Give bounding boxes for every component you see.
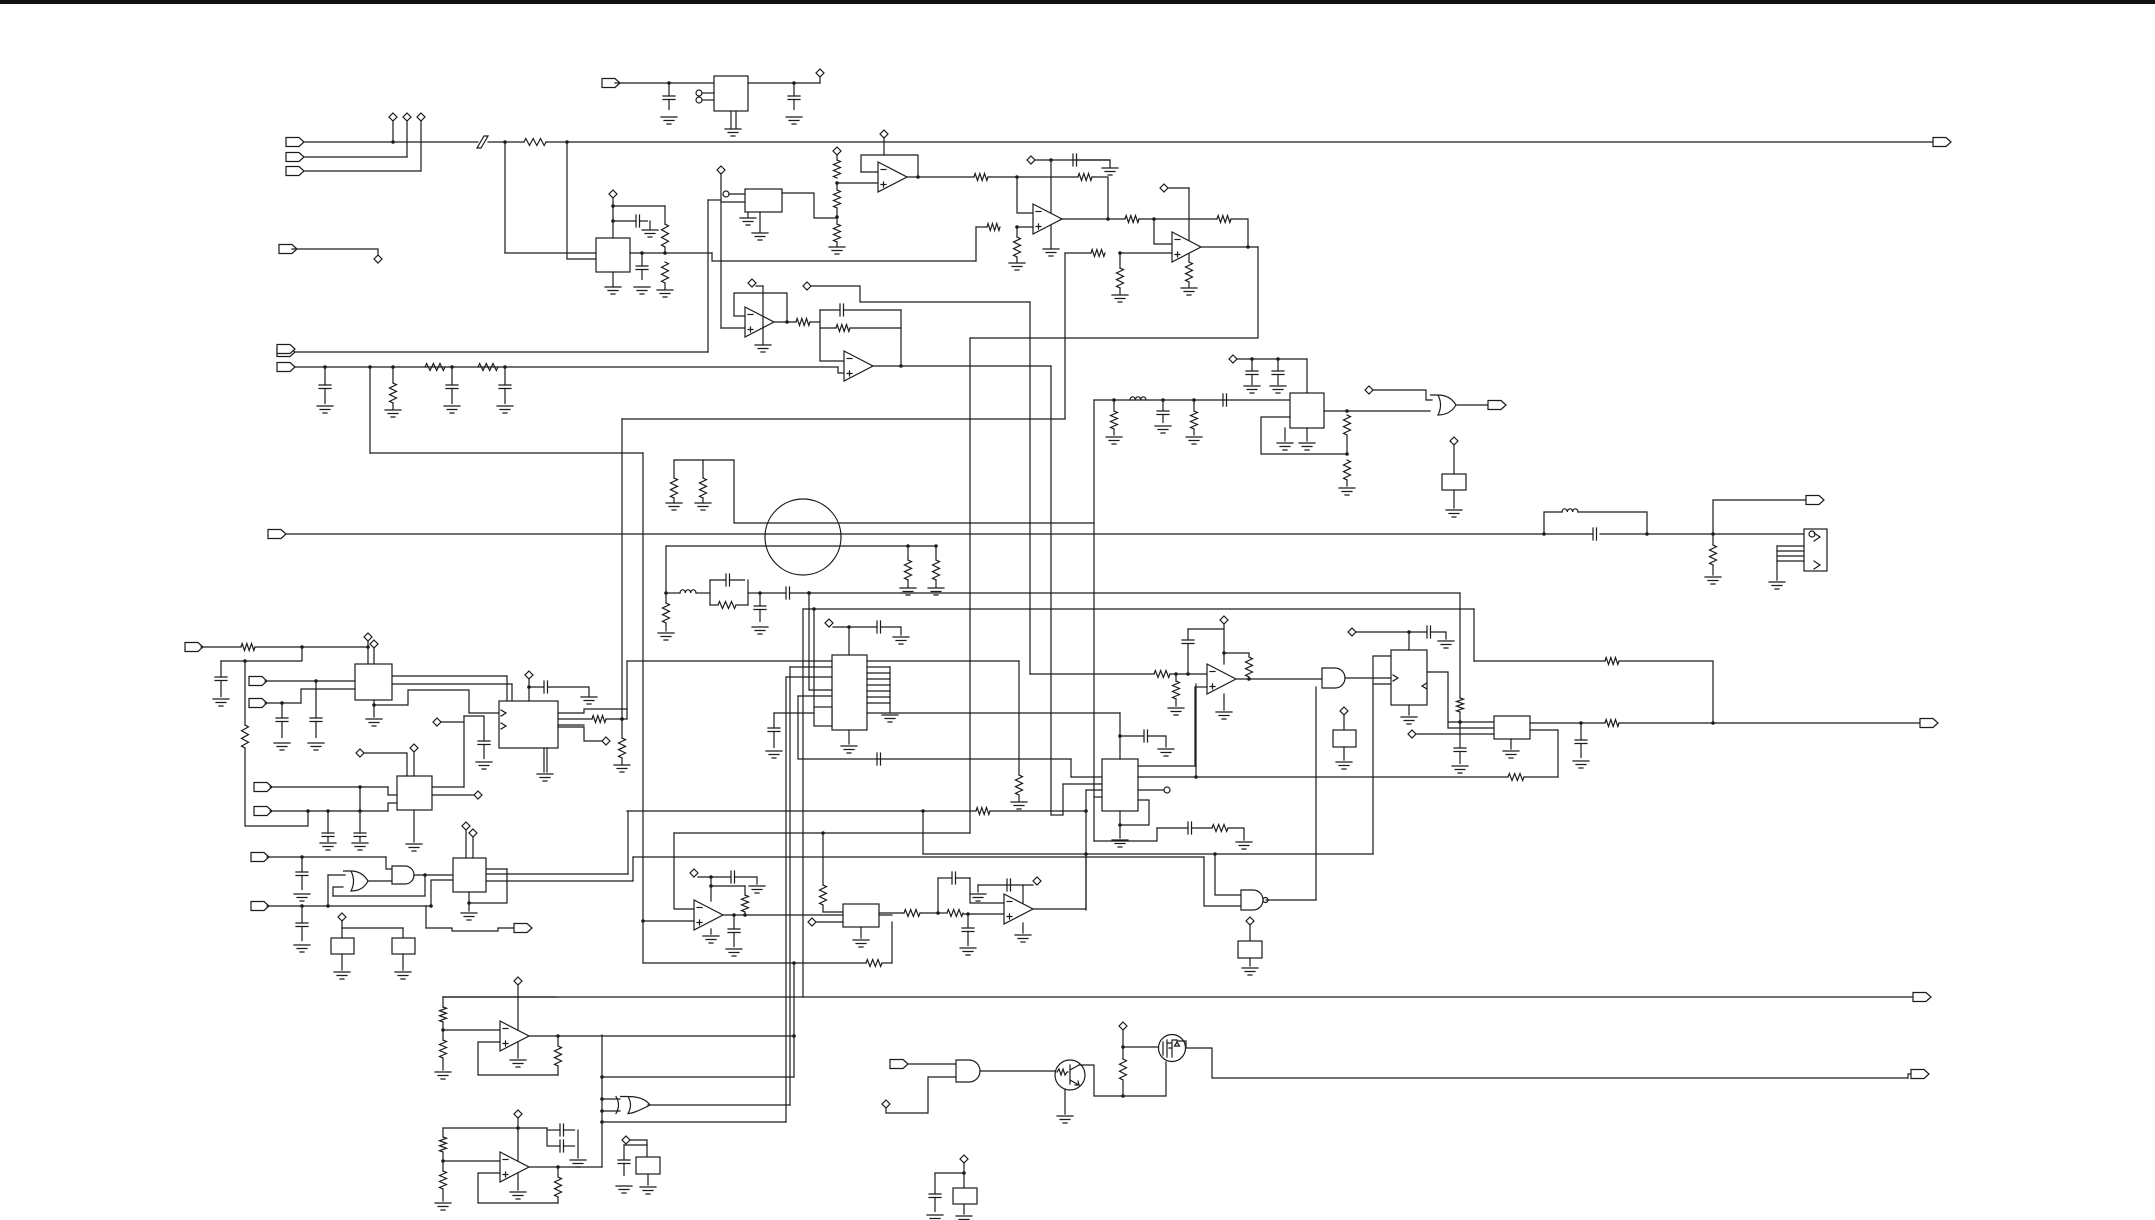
pin circle U1-b bbox=[696, 97, 702, 103]
wire R55 stub bbox=[442, 1161, 444, 1171]
op-amp U5 bbox=[1033, 204, 1062, 234]
ground below C32 bbox=[1573, 761, 1589, 768]
wire x464 cap spur bbox=[464, 716, 484, 741]
resistor R50 bbox=[1212, 825, 1228, 832]
wire NAND in1 feed bbox=[1215, 854, 1241, 895]
wire U16 left bracket bbox=[1373, 656, 1391, 854]
wire U19 out bbox=[879, 912, 904, 914]
wire U11 right pin 2 bbox=[432, 794, 474, 796]
junction U2top-y206 bbox=[611, 204, 615, 208]
wire U6 out down-left bbox=[970, 247, 1258, 338]
wire NAND in2 feed bbox=[1204, 857, 1241, 906]
junction y609-x814 bbox=[812, 607, 816, 611]
wire NAND to G2 riser bbox=[1315, 687, 1317, 900]
wire TP2 stub bbox=[406, 121, 408, 157]
wire y713 to side box bbox=[774, 712, 814, 714]
ground below R10 bbox=[1009, 263, 1025, 270]
wire TP14 supply bbox=[1237, 358, 1307, 360]
wire R16 stub bbox=[392, 367, 394, 383]
wire U15 + riser bbox=[1194, 687, 1196, 766]
wire y815 bbox=[1051, 814, 1063, 816]
ground below R26 bbox=[695, 503, 711, 510]
wire x1196 riser to U15+ bbox=[1195, 684, 1197, 777]
test point diamond TP32 bbox=[514, 977, 522, 985]
wire R55 gnd stub bbox=[442, 1189, 444, 1201]
ground below U2 bbox=[605, 287, 621, 294]
wire U3 gnd stub 1 bbox=[747, 212, 749, 217]
wire U8 input node bbox=[820, 310, 844, 361]
IC U13 side box bbox=[814, 707, 832, 726]
wire U17 right pin y730 bbox=[1530, 729, 1558, 731]
resistor R43 bbox=[1605, 658, 1619, 665]
resistor R37 bbox=[1508, 774, 1524, 781]
IC U12 (MCU) bbox=[499, 701, 558, 748]
and gate G5 bbox=[392, 866, 414, 884]
wire G6 output bbox=[368, 880, 392, 882]
resistor R32 bbox=[1344, 460, 1351, 480]
wire y206 to R2 bbox=[613, 205, 665, 207]
regulator U1 bbox=[714, 76, 748, 111]
wire U12 pin y713 route bbox=[558, 709, 627, 713]
wire U21 + input bbox=[478, 1042, 558, 1075]
wire U16 bottom pin bbox=[1408, 705, 1410, 715]
connector tag J1 (input 1) bbox=[286, 138, 304, 147]
wire R50 to gnd bbox=[1228, 828, 1244, 840]
test point diamond TP41 bbox=[1246, 917, 1254, 925]
capacitor C17 bbox=[1277, 359, 1279, 371]
wire R37 to x1558 bbox=[1524, 776, 1558, 778]
wire y629 link bbox=[1188, 628, 1224, 630]
ground below C19 bbox=[308, 743, 324, 750]
connector tag J17 (bus out) bbox=[1913, 993, 1931, 1002]
wire G4 output bbox=[648, 1104, 790, 1106]
junction y546-R23 bbox=[906, 544, 910, 548]
wire y1036 run bbox=[558, 1035, 794, 1037]
junction y723-C32 bbox=[1579, 721, 1583, 725]
capacitor C8 bbox=[504, 367, 506, 385]
test point diamond TP29 bbox=[690, 869, 698, 877]
and gate G7 bbox=[956, 1060, 980, 1082]
resistor R28 (parallel) bbox=[718, 602, 736, 609]
wire J16 to U11 bbox=[270, 810, 388, 812]
ferrite bead FB3 bbox=[1333, 730, 1356, 747]
ground below C31 bbox=[1452, 766, 1468, 773]
wire R26 stub bbox=[702, 460, 704, 478]
wire U13 left pin y677 bbox=[786, 676, 832, 678]
test point diamond TP19 bbox=[356, 749, 364, 757]
wire C3 to gnd bbox=[649, 221, 651, 229]
wire U13 top pin bbox=[848, 627, 850, 655]
wire CON1 pin w4 bbox=[1777, 560, 1804, 562]
resistor R13 bbox=[1186, 262, 1193, 282]
wire TP7 vertical x721 bbox=[720, 174, 722, 328]
junction bus-bead bbox=[1542, 532, 1546, 536]
wire R35 gnd stub bbox=[1018, 795, 1020, 801]
junction R4-R5 bbox=[835, 181, 839, 185]
ground below U19 bbox=[853, 940, 869, 947]
wire x302 jog bbox=[221, 647, 302, 661]
ground below R6 bbox=[829, 247, 845, 254]
ground below R15 bbox=[1112, 295, 1128, 302]
wire x711 supply bbox=[710, 877, 712, 901]
capacitor C13 (series) bbox=[760, 592, 786, 594]
wire y453 bbox=[370, 452, 643, 454]
wire U17 bottom pin bbox=[1510, 739, 1512, 749]
wire y928 run bbox=[342, 927, 403, 929]
wire y1128 run bbox=[443, 1127, 547, 1129]
capacitor C16 bbox=[1251, 359, 1253, 371]
resistor R45 bbox=[866, 960, 882, 967]
wire TP16 to FB2 bbox=[1453, 445, 1455, 474]
junction y703-C20 bbox=[280, 701, 284, 705]
ground below U13 right bar bbox=[882, 715, 898, 722]
wire U14 left pin y797 bbox=[1094, 796, 1102, 798]
wire x633 riser bbox=[632, 857, 634, 881]
wire U17 right pin y723 bbox=[1530, 722, 1581, 724]
pin circle CON1 bbox=[1809, 531, 1815, 537]
wire x803 long drop bbox=[802, 609, 804, 997]
ground below U10 bbox=[366, 719, 382, 726]
wire U14 gnd stub bbox=[1119, 825, 1121, 838]
connector tag J6 (mod out) bbox=[277, 348, 295, 357]
wire R56 stub b bbox=[557, 1197, 559, 1203]
capacitor C33 bbox=[731, 871, 735, 883]
ground below R23 bbox=[900, 588, 916, 595]
wire G5 feedback bbox=[333, 875, 425, 896]
junction y854-x1215 bbox=[1213, 852, 1217, 856]
wire U12 pin y725 bbox=[558, 724, 584, 726]
ground below R13 bbox=[1181, 288, 1197, 295]
wire R27 stub bbox=[665, 593, 667, 603]
capacitor C24 bbox=[529, 686, 544, 688]
wire x1030 down bbox=[1029, 302, 1031, 674]
junction U9out-R31 bbox=[1345, 409, 1349, 413]
wire U7 feedback bbox=[734, 293, 787, 322]
wire U5 + input bbox=[1017, 226, 1033, 228]
capacitor C9 (feedback) bbox=[820, 309, 840, 311]
wire y854 run bbox=[923, 853, 1373, 855]
test point diamond TP36 bbox=[462, 822, 470, 830]
ground below osc caps bbox=[570, 1160, 586, 1167]
wire TP30 to U19 bbox=[816, 921, 843, 923]
and gate G2 bbox=[1322, 668, 1345, 688]
junction TP39-gate bbox=[1121, 1045, 1125, 1049]
ground below C14 bbox=[1155, 426, 1171, 433]
wire R28 left stub bbox=[710, 604, 718, 606]
ground below U15 bbox=[1216, 712, 1232, 719]
connector tag J16 bbox=[254, 807, 272, 816]
wire U1 pin b bbox=[702, 99, 714, 101]
resistor R23 bbox=[905, 560, 912, 580]
capacitor C2 bbox=[793, 83, 795, 96]
test point diamond TP4 bbox=[374, 255, 382, 263]
connector tag J23 bbox=[1911, 1070, 1929, 1079]
resistor R39 bbox=[1173, 681, 1180, 699]
resistor R11 bbox=[1125, 216, 1139, 223]
transistor Q2 (MOSFET) bbox=[1159, 1035, 1186, 1062]
ground below Q1 bbox=[1057, 1116, 1073, 1123]
ground below FB2 bbox=[1446, 510, 1462, 517]
test point diamond TP1 bbox=[389, 113, 397, 121]
resistor R1 in top bus bbox=[524, 139, 546, 146]
test point diamond TP22 bbox=[433, 718, 441, 726]
wire Q1 collector bbox=[1079, 1062, 1166, 1096]
connector tag J4 (enable) bbox=[279, 245, 297, 254]
resistor R3 bbox=[662, 262, 669, 283]
wire R2 bottom stub bbox=[664, 247, 666, 253]
test point diamond TP27 bbox=[1408, 730, 1416, 738]
connector tag RF OUT (top right) bbox=[1933, 138, 1951, 147]
ground below U13 bbox=[841, 746, 857, 753]
connector tag J2 (input 2) bbox=[286, 153, 304, 162]
wire R28 right stub bbox=[736, 604, 748, 606]
wire G4 lower input bbox=[602, 1110, 620, 1112]
wire TP26 supply bbox=[1356, 631, 1427, 633]
arrow CON1 top bbox=[1814, 533, 1820, 541]
wire U16 right pin route bbox=[1427, 672, 1494, 728]
capacitor C38 bbox=[1188, 822, 1192, 834]
resistor R29 bbox=[1111, 411, 1118, 429]
resistor R46 bbox=[820, 885, 827, 905]
wire U13 right pin 1 bbox=[867, 666, 890, 668]
wire R27 gnd stub bbox=[665, 623, 667, 631]
wire net IN1 to slash bbox=[304, 141, 478, 143]
wire U1 output bbox=[748, 82, 820, 84]
capacitor C44 bbox=[929, 1194, 941, 1198]
wire U14 left pin y784 bbox=[1063, 783, 1102, 785]
wire R51 link bbox=[442, 1022, 444, 1030]
capacitor C14 bbox=[1162, 400, 1164, 411]
capacitor C30 bbox=[1427, 626, 1431, 638]
wire C33 to gnd bbox=[735, 877, 758, 884]
resistor R10 bbox=[1014, 237, 1021, 257]
wire TP31 run bbox=[978, 884, 1033, 886]
wire C36 to x970 bbox=[956, 877, 971, 879]
junction y719-x622 bbox=[620, 717, 624, 721]
wire U7 output bbox=[774, 321, 796, 323]
wire U13 right pin 7 bbox=[867, 702, 890, 704]
wire x809 down bbox=[808, 593, 810, 690]
wire U23 right pin 2 bbox=[487, 880, 633, 882]
junction x1196-y777 bbox=[1194, 775, 1198, 779]
test point diamond TP16 bbox=[1450, 437, 1458, 445]
test point diamond TP17 bbox=[364, 633, 372, 641]
junction y914-C35 bbox=[966, 912, 970, 916]
junction x794-y963 bbox=[792, 961, 796, 965]
wire U1 gnd pin 1 bbox=[730, 111, 732, 128]
wire R34 to y826 bbox=[245, 748, 308, 826]
wire x627 riser ext bbox=[626, 709, 628, 719]
junction y546-R24 bbox=[934, 544, 938, 548]
wire TP39 drop bbox=[1122, 1030, 1124, 1059]
wire RC box out bbox=[748, 592, 760, 594]
capacitor C18 bbox=[215, 677, 227, 681]
junction supply-x1051 bbox=[1049, 158, 1053, 162]
wire y1173 link bbox=[935, 1172, 964, 1174]
wire x507 down bbox=[506, 676, 508, 719]
wire nodeB to U6 inv bbox=[1154, 219, 1172, 244]
junction TP17-y647 bbox=[366, 645, 370, 649]
wire U8 out down x1051 bbox=[1050, 366, 1052, 815]
wire R44 stub bbox=[744, 886, 746, 895]
capacitor C28 bbox=[1120, 735, 1144, 737]
ground below C1 bbox=[661, 117, 677, 124]
wire R36 to x627 bbox=[606, 718, 627, 720]
resistor R24 bbox=[933, 560, 940, 580]
ground below U23 bbox=[461, 913, 477, 920]
wire R25 gnd stub bbox=[673, 498, 675, 502]
wire TP38 to G7 bbox=[886, 1077, 956, 1113]
wire R11 to node B bbox=[1139, 218, 1217, 220]
junction node B bbox=[1152, 217, 1156, 221]
wire nodeA to R8 bbox=[1017, 176, 1078, 178]
connector tag J12 bbox=[185, 643, 203, 652]
connector tag J11 bbox=[1488, 401, 1506, 410]
IC U14 bbox=[1102, 759, 1138, 811]
wire L1 left bbox=[666, 592, 680, 594]
crystal X1 bbox=[636, 1157, 660, 1174]
junction y367-C8 bbox=[503, 365, 507, 369]
wire U13 left pin y667 bbox=[790, 666, 832, 668]
wire y928 jogged run bbox=[426, 928, 514, 931]
wire U2 output y253 bbox=[630, 252, 712, 254]
capacitor C35 bbox=[962, 928, 974, 932]
wire y828 link bbox=[1157, 827, 1188, 829]
wire y367 jog to U8+ bbox=[838, 367, 844, 373]
ground below C17 bbox=[1270, 386, 1286, 393]
wire C38-R50 link bbox=[1192, 827, 1213, 829]
junction bus-x567 bbox=[565, 140, 569, 144]
ferrite bead FB6 bbox=[953, 1188, 977, 1204]
resistor R40 (feedback) bbox=[1246, 657, 1253, 677]
wire U10 right pin 2 bbox=[392, 683, 512, 685]
wire R21 gnd stub bbox=[621, 758, 623, 764]
wire x602 vertical bbox=[601, 1035, 603, 1167]
wire G6 lower feed bbox=[333, 887, 343, 896]
wire y352 to tag bbox=[293, 351, 708, 353]
resistor R57 bbox=[1120, 1059, 1127, 1080]
junction x794-y1036 bbox=[792, 1034, 796, 1038]
wire U22 + input bbox=[478, 1173, 558, 1203]
wire U13 left pin y690 bbox=[809, 689, 832, 691]
wire R29 stub bbox=[1113, 400, 1115, 411]
wire x1071 drop bbox=[1070, 759, 1072, 777]
test point diamond TP9 bbox=[880, 130, 888, 138]
connector tag J19 bbox=[251, 853, 269, 862]
wire U12 pin y727 route bbox=[558, 727, 602, 741]
wire TP18 stub bbox=[373, 648, 375, 664]
junction y367-R16 bbox=[391, 365, 395, 369]
junction y906-x328 bbox=[326, 904, 330, 908]
wire x628 riser bbox=[627, 811, 629, 874]
wire J14 run bbox=[265, 702, 301, 704]
ground below CON1 wires bbox=[1769, 582, 1785, 589]
wire y593 long run bbox=[790, 592, 1461, 594]
wire y661b left bbox=[1474, 660, 1605, 662]
wire top bus RF line bbox=[546, 141, 1933, 143]
ground below U9 a bbox=[1277, 443, 1293, 450]
test point diamond TP13 bbox=[803, 282, 811, 290]
wire U22 inv feed bbox=[443, 1160, 500, 1162]
junction y811-x923 bbox=[921, 809, 925, 813]
RC box right side bbox=[747, 580, 749, 605]
op-amp U22 bbox=[500, 1152, 529, 1182]
wire C41 stub bbox=[623, 1145, 625, 1160]
wire C34 stub bbox=[733, 915, 735, 929]
ground below U1 bbox=[725, 129, 741, 136]
ground right of C30 bbox=[1438, 641, 1454, 648]
wire U10 right pin 1 bbox=[392, 675, 507, 677]
wire U13 right pin 2 bbox=[867, 672, 890, 674]
wire U14 bottom loop bbox=[1120, 800, 1149, 825]
junction x602-y1122 bbox=[600, 1120, 604, 1124]
junction x602-y1111 bbox=[600, 1109, 604, 1113]
resistor R19 bbox=[796, 319, 810, 326]
ground below C2 bbox=[786, 117, 802, 124]
test point diamond TP8 bbox=[833, 147, 841, 155]
wire C31 stub bbox=[1459, 722, 1461, 748]
wire y811 jog to pin bbox=[388, 803, 397, 811]
wire CON1 gnd vertical bbox=[1776, 546, 1778, 580]
wire R31 link bbox=[1346, 435, 1348, 454]
wire R32 gnd stub bbox=[1346, 480, 1348, 486]
junction U6out-fb bbox=[1246, 245, 1250, 249]
wire osc cap gnd stub bbox=[577, 1146, 579, 1158]
wire U2 top pin bbox=[612, 198, 614, 238]
junction x602-y1077 bbox=[600, 1075, 604, 1079]
junction y593-C12 bbox=[758, 591, 762, 595]
resistor R26 bbox=[700, 478, 707, 498]
wire x1086 output riser bbox=[1085, 854, 1087, 909]
wire R24 stub bbox=[935, 546, 937, 560]
wire y886 link bbox=[711, 885, 745, 887]
wire TP35 stub bbox=[341, 921, 343, 928]
wire U9 output y411 bbox=[1324, 410, 1430, 412]
wire x814 drop to U13 box bbox=[813, 609, 815, 707]
test point diamond TP31 bbox=[1033, 877, 1041, 885]
capacitor C1 bbox=[668, 83, 670, 96]
wire C24 to gnd bbox=[548, 687, 590, 696]
resistor R15 bbox=[1117, 268, 1124, 288]
capacitor C23 bbox=[478, 741, 490, 745]
wire U12 gnd pin b bbox=[546, 748, 548, 772]
wire U23 right pin 1 bbox=[487, 873, 628, 875]
wire U7 supply vertical bbox=[762, 286, 764, 344]
wire U11 right pin 1 bbox=[432, 786, 464, 788]
wire TP34 run bbox=[630, 1140, 647, 1157]
wire U13 right pin 5 bbox=[867, 690, 890, 692]
capacitor C25 bbox=[849, 626, 877, 628]
junction bus-x1713 bbox=[1711, 532, 1715, 536]
wire U18 + input bbox=[643, 921, 694, 963]
wire R40 out stub bbox=[1248, 677, 1250, 679]
resistor R6 bbox=[834, 224, 841, 242]
junction supply-fb bbox=[1222, 651, 1226, 655]
wire x1094 long vertical bbox=[1093, 400, 1095, 841]
ground below FB3 bbox=[1336, 762, 1352, 769]
ground below C21 bbox=[320, 843, 336, 850]
wire R12 to U6 out bbox=[1231, 219, 1248, 247]
test point diamond TP35 bbox=[338, 913, 346, 921]
wire U6 bias vertical x1065 bbox=[1064, 253, 1066, 419]
wire y811 run bbox=[627, 810, 976, 812]
wire x892 feedback riser bbox=[891, 922, 893, 963]
junction y367-C7 bbox=[450, 365, 454, 369]
ground right of C33 bbox=[749, 886, 765, 893]
junction y367-C6 bbox=[323, 365, 327, 369]
wire U14 left pin y777 bbox=[1071, 776, 1102, 778]
ground below U7 bbox=[755, 345, 771, 352]
